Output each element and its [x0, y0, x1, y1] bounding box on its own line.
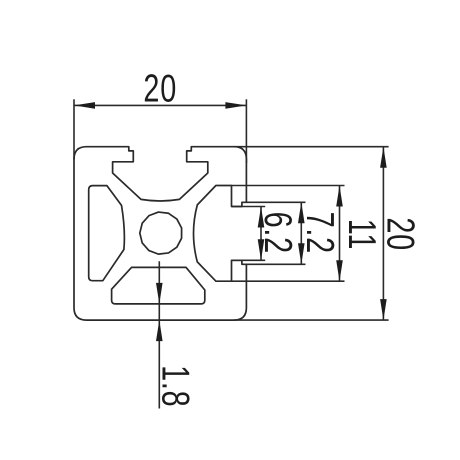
dimension 6.2: top arrowhead [258, 207, 265, 228]
dimension 7.2: bottom arrowhead [298, 243, 305, 264]
dimension 11: extension line top [232, 185, 345, 187]
dimension 20 top: extension line right [245, 99, 247, 163]
dimension 7.2: text [298, 212, 341, 254]
svg-text:20: 20 [143, 67, 177, 110]
dimension 11: bottom arrowhead [336, 260, 343, 281]
dimension 20 top: dimension line [74, 104, 246, 106]
dimension 7.2: dimension line [300, 202, 302, 264]
dimension 7.2: extension line bottom [246, 263, 305, 265]
dimension 6.2: bottom arrowhead [258, 239, 265, 260]
dimension 6.2: dimension line [260, 207, 262, 261]
dimension 20 right: dimension line [382, 147, 384, 320]
center bore (polygon circle) [140, 212, 182, 254]
dimension 20 right: extension line bottom [234, 319, 389, 321]
svg-text:1.8: 1.8 [153, 365, 196, 407]
svg-text:7.2: 7.2 [298, 212, 341, 254]
dimension 6.2: text [256, 212, 299, 254]
dimension 20 top: extension line left [73, 99, 75, 159]
dimension 20 right: extension line top [234, 146, 389, 148]
dimension 6.2: extension line top [232, 206, 266, 208]
dimension 20 right: text [379, 217, 422, 251]
dimension 7.2: extension line top [246, 201, 305, 203]
dimension 6.2: extension line bottom [232, 259, 266, 261]
profile outline (20x20 extrusion outer contour with top and right T-slots) [74, 147, 246, 320]
dimension 20 right: top arrowhead [380, 147, 387, 168]
bottom closed cavity [112, 267, 205, 304]
dimension 11: top arrowhead [336, 186, 343, 207]
dimension 11: extension line bottom [232, 280, 345, 282]
dimension 20 top: left arrowhead [74, 102, 95, 109]
dimension 20 right: bottom arrowhead [380, 299, 387, 320]
dimension 11: text [340, 219, 383, 250]
svg-text:6.2: 6.2 [256, 212, 299, 254]
dimension 1.8: dimension line [158, 261, 160, 408]
dimension 1.8: text [153, 365, 196, 407]
left closed cavity [89, 186, 125, 281]
dimension 20 top: right arrowhead [225, 102, 246, 109]
svg-text:11: 11 [340, 219, 383, 250]
dimension 1.8: down arrowhead [156, 283, 163, 304]
dimension 7.2: top arrowhead [298, 202, 305, 223]
dimension 20 top: text [143, 67, 177, 110]
dimension 11: dimension line [339, 186, 341, 282]
svg-text:20: 20 [379, 217, 422, 251]
dimension 1.8: up arrowhead [156, 320, 163, 341]
